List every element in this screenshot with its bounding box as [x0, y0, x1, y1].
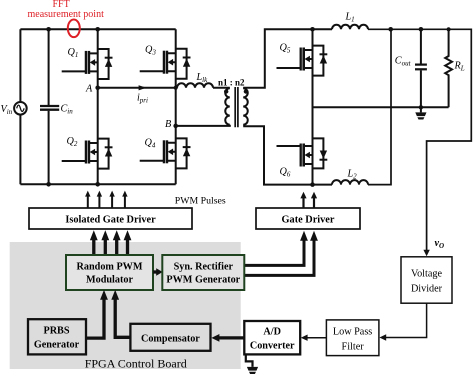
wire: L2 to output junction: [368, 29, 391, 184]
junction dots on primary rails: [46, 27, 51, 32]
svg-text:FPGA Control Board: FPGA Control Board: [85, 357, 187, 371]
arrows gate driver to Q5 Q6: [304, 198, 315, 208]
FFT measurement point annotation: [28, 0, 105, 20]
svg-text:Llk: Llk: [196, 72, 209, 84]
thick arrow RPM to SynRect: [153, 270, 157, 273]
wire: node B to transformer: [176, 125, 230, 126]
svg-text:Vin: Vin: [1, 104, 13, 116]
capacitor Cout: [415, 29, 427, 107]
svg-text:Q3: Q3: [145, 45, 156, 57]
junction RL top: [447, 27, 451, 31]
box PRBS Generator: [28, 319, 86, 354]
wire Voltage Divider to Low Pass Filter: [385, 303, 427, 337]
transistor Q6 (flipped): [277, 138, 328, 168]
svg-text:Low Pass: Low Pass: [333, 327, 372, 338]
wire: Llk to transformer: [213, 87, 230, 89]
transistor Q4: [140, 138, 191, 168]
svg-text:Divider: Divider: [411, 283, 443, 294]
svg-text:Cout: Cout: [395, 55, 412, 67]
box Random PWM Modulator: [66, 255, 153, 290]
svg-text:Modulator: Modulator: [86, 274, 133, 285]
ground at output: [420, 107, 422, 112]
transformer T1 core: [235, 87, 238, 127]
svg-text:Q6: Q6: [280, 166, 291, 178]
junction Cout bottom: [419, 105, 423, 109]
box Gate Driver: [256, 208, 360, 229]
thick arrow Compensator to RPM: [115, 296, 130, 337]
junction Cout top: [419, 27, 424, 32]
svg-text:Voltage: Voltage: [411, 268, 442, 279]
box Voltage Divider: [401, 257, 452, 303]
wire: mid rail (output return): [313, 106, 449, 108]
transistor Q1: [62, 49, 113, 79]
svg-text:n1 : n2: n1 : n2: [218, 78, 245, 88]
thick arrow PRBS to RPM: [86, 296, 104, 338]
arrow into voltage divider: [423, 250, 429, 256]
svg-text:PWM Pulses: PWM Pulses: [175, 196, 226, 207]
red ellipse marker: [68, 20, 80, 38]
box AD Converter: [244, 321, 300, 354]
wire: Q3/Q4 leg: [175, 29, 177, 184]
junction Q6 drain: [310, 182, 315, 187]
box Isolated Gate Driver: [29, 208, 192, 229]
arrow LPF to AD: [307, 337, 326, 339]
transformer T1 secondary winding: [243, 88, 248, 124]
svg-text:Isolated Gate Driver: Isolated Gate Driver: [65, 214, 156, 225]
svg-text:Cin: Cin: [61, 104, 74, 116]
thick arrow AD to Compensator: [217, 336, 244, 339]
FPGA control board shaded region: [10, 242, 241, 369]
svg-text:PWM Generator: PWM Generator: [166, 274, 240, 285]
box Low Pass Filter: [326, 320, 379, 356]
box Compensator: [130, 324, 210, 351]
svg-text:vO: vO: [435, 238, 445, 250]
box Syn. Rectifier PWM Generator: [162, 255, 244, 290]
svg-text:ipri: ipri: [137, 93, 148, 105]
inductor L2: [332, 180, 368, 185]
wire: node A to Llk: [98, 87, 177, 89]
thick wires SynRect to Gate Driver: [244, 240, 304, 265]
wire: secondary bottom link: [243, 126, 332, 184]
svg-text:Filter: Filter: [342, 341, 365, 352]
svg-text:Gate Driver: Gate Driver: [282, 214, 335, 225]
node B: [173, 124, 178, 129]
svg-text:RL: RL: [454, 60, 465, 72]
svg-text:L1: L1: [345, 11, 355, 23]
wire: primary bottom rail: [20, 183, 175, 185]
svg-text:Generator: Generator: [34, 340, 80, 351]
inductor Llk: [177, 83, 213, 88]
svg-text:Q4: Q4: [145, 138, 156, 150]
svg-text:measurement point: measurement point: [28, 9, 105, 20]
transistor Q3: [140, 49, 191, 79]
inductor L1: [332, 25, 368, 30]
transistor Q5: [277, 46, 328, 76]
resistor RL: [445, 29, 452, 107]
svg-text:Q5: Q5: [280, 43, 291, 55]
wire: Q5/Q6 leg: [312, 29, 314, 184]
wire: output top rail and vO sense line: [368, 29, 471, 250]
svg-text:Q2: Q2: [67, 136, 78, 148]
wire: Q1/Q2 leg: [97, 29, 99, 184]
svg-text:Compensator: Compensator: [141, 333, 200, 344]
arrows PWM pulses to bridge: [88, 196, 125, 208]
junction at Llk start: [174, 86, 178, 90]
svg-text:PRBS: PRBS: [43, 325, 69, 336]
transformer T1 primary winding: [225, 88, 230, 124]
ground at AD converter: [246, 355, 253, 367]
wire: primary top rail: [20, 28, 175, 30]
node A: [95, 86, 100, 91]
svg-text:A/D: A/D: [263, 326, 281, 337]
junction output plus: [388, 27, 393, 32]
junction Q5 drain: [310, 27, 315, 32]
svg-text:A: A: [85, 84, 93, 95]
svg-text:Converter: Converter: [250, 340, 295, 351]
svg-text:B: B: [165, 119, 171, 130]
svg-text:L2: L2: [347, 169, 358, 181]
transistor Q2: [62, 139, 113, 169]
thick arrows RPM to IGD: [94, 239, 128, 256]
wire: left rail with Vin: [19, 29, 21, 184]
transformer phase dot secondary: [244, 89, 248, 93]
wire: secondary top link: [243, 29, 332, 88]
source Vin: [14, 102, 27, 115]
svg-text:Syn. Rectifier: Syn. Rectifier: [174, 262, 234, 273]
transformer phase dot primary: [224, 89, 228, 93]
svg-text:Random PWM: Random PWM: [77, 262, 143, 273]
svg-text:Q1: Q1: [68, 47, 79, 59]
current arrow i_pri: [139, 85, 147, 90]
capacitor Cin: [40, 29, 59, 184]
